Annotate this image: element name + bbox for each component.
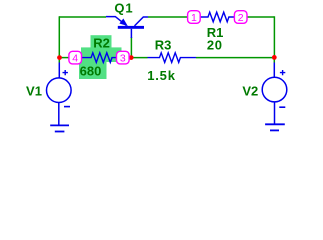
label V2 [242,84,258,99]
wire R3 to right junction [196,57,274,59]
svg-text:2: 2 [238,12,244,24]
junction dot left [57,55,62,60]
ground below V2 [265,124,285,130]
transistor Q1 [106,17,148,38]
wire node 2 to top-right corner [247,16,274,18]
svg-text:V2: V2 [242,84,258,99]
wire left rail vertical [58,16,60,58]
svg-text:680: 680 [80,63,102,78]
highlight box R2 label [91,35,112,48]
svg-text:1: 1 [191,12,197,24]
junction dot base [129,55,134,60]
label R2 [93,35,110,50]
wire left junction to node 4 [59,57,70,59]
node 4 [69,51,82,64]
node 3 [117,51,130,64]
svg-text:Q1: Q1 [114,0,133,15]
resistor R2 [82,53,117,63]
svg-text:3: 3 [120,52,126,64]
highlight box R2 value [79,62,107,79]
label R3 [155,37,172,52]
svg-text:R2: R2 [93,35,110,50]
label V1 [26,84,42,99]
wire node 3 junction to R3 [131,57,148,59]
wire base column [130,37,132,57]
label Q1 [114,0,133,15]
svg-text:1.5k: 1.5k [147,68,176,83]
label R1 [207,25,224,40]
wire collector to node 1 [148,16,188,18]
wire V2 top stub [273,58,275,63]
junction dot right [272,55,277,60]
value 20 [207,38,223,53]
wire V1 top stub [58,58,60,63]
ground below V1 [50,125,69,131]
highlight box R2 body [81,47,122,62]
resistor R3 [148,53,197,63]
resistor R1 [200,12,234,22]
node 2 [234,11,247,24]
value 1.5k [147,68,176,83]
svg-text:R3: R3 [155,37,172,52]
value 680 [80,63,102,78]
voltage source V1 [47,63,72,126]
svg-text:4: 4 [72,52,78,64]
node 1 [188,11,201,24]
wire top-left horizontal [59,16,106,18]
wire right rail vertical [273,16,275,58]
voltage source V2 [262,63,287,125]
svg-text:V1: V1 [26,84,42,99]
svg-text:20: 20 [207,38,223,53]
